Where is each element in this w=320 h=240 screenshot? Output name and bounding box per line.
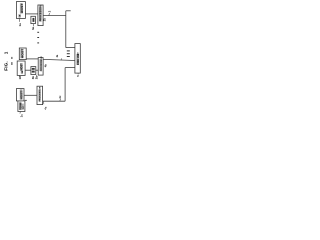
lead line A2 — [18, 75, 20, 76]
svg-text:HOST: HOST — [20, 48, 24, 58]
lead line E3 — [19, 112, 22, 114]
cpu box B1 — [31, 16, 36, 23]
lead tick wire c3 — [59, 99, 62, 101]
lead line B1 — [32, 24, 35, 27]
lead line A1 — [18, 18, 21, 21]
wire C2 to D — [43, 59, 75, 60]
ellipsis dashes hosts — [37, 32, 39, 43]
host computer box A3 — [16, 89, 24, 101]
wire C3 to bus — [43, 100, 66, 102]
numeral marks left of A2 — [11, 57, 12, 59]
wire B2 to C2 — [36, 69, 38, 71]
ellipsis dashes channels — [67, 51, 70, 57]
cpu box B2 — [31, 67, 36, 75]
lead line C2 — [36, 75, 38, 77]
bus vertical wire — [65, 11, 67, 48]
disk unit box D — [75, 44, 80, 74]
svg-text:1A: 1A — [19, 14, 22, 17]
host computer box A2 — [17, 61, 25, 75]
svg-text:4b: 4b — [44, 64, 48, 67]
terminal box E3 — [18, 101, 25, 112]
svg-text:1C: 1C — [23, 106, 25, 109]
host computer box A1 — [16, 2, 25, 19]
svg-text:DISK UNIT: DISK UNIT — [77, 52, 80, 65]
wire A1 to C1 — [25, 13, 38, 15]
processor box C2 — [38, 56, 43, 75]
svg-text:PROCESSOR: PROCESSOR — [41, 56, 43, 71]
processor box C3 — [37, 86, 43, 104]
wire bus to D lower — [65, 67, 75, 69]
svg-text:PROCESSOR: PROCESSOR — [40, 5, 43, 21]
svg-text:1b: 1b — [18, 76, 22, 80]
svg-text:1c: 1c — [19, 114, 23, 118]
wire U2 to C2 — [26, 58, 38, 60]
lead tick wire 2 — [48, 13, 51, 16]
svg-text:HOST: HOST — [20, 63, 24, 71]
wire C1 to bus — [43, 15, 66, 17]
wire A3 to C3 — [24, 94, 37, 96]
processor box C1 — [38, 5, 43, 26]
bus vertical wire lower — [64, 68, 66, 102]
svg-text:PROCESSOR: PROCESSOR — [40, 86, 42, 101]
svg-text:2b: 2b — [35, 76, 39, 80]
figure label FIG. 1 — [3, 51, 8, 70]
stub E3 — [25, 99, 27, 101]
bus top stub — [66, 10, 71, 12]
wire bus to D top — [66, 47, 75, 49]
lead hook c3 — [42, 101, 45, 104]
svg-text:1a: 1a — [18, 23, 22, 27]
svg-text:3a: 3a — [31, 26, 35, 30]
svg-text:HOST: HOST — [20, 3, 24, 13]
lead line C1 — [42, 18, 45, 20]
svg-text:HOST: HOST — [19, 91, 23, 100]
svg-text:1B: 1B — [22, 70, 24, 73]
wire A2 to B2 — [25, 69, 31, 71]
lead line D — [77, 73, 79, 74]
host computer box U2 — [19, 48, 26, 60]
lead tick wire c2 — [60, 58, 63, 60]
svg-text:FIG.: FIG. — [3, 61, 8, 71]
svg-text:1: 1 — [3, 51, 8, 54]
